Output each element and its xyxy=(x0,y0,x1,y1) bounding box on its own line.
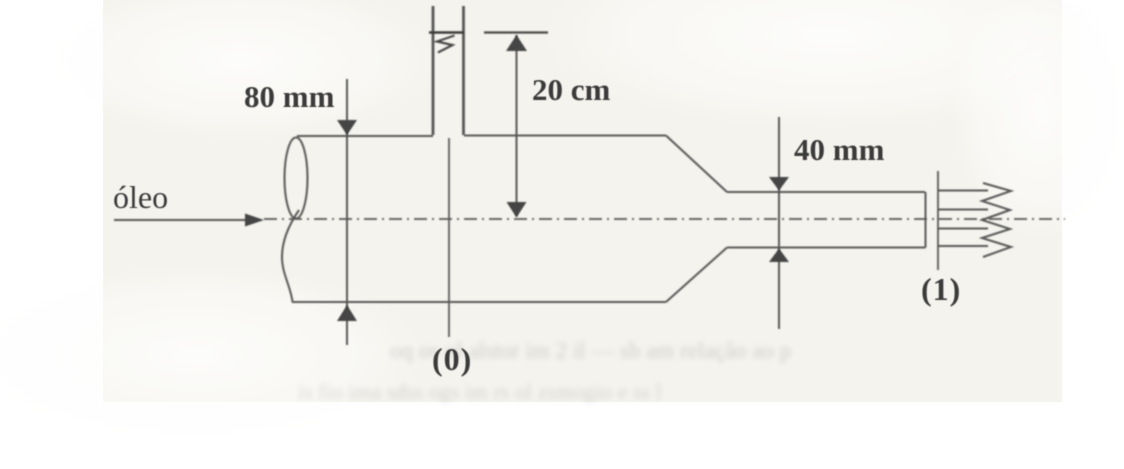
piezometer tube right wall xyxy=(462,6,465,135)
80 mm top arrowhead xyxy=(337,120,357,135)
80 mm dimension line xyxy=(346,79,348,345)
svg-text:40 mm: 40 mm xyxy=(794,132,885,167)
liquid surface squiggle xyxy=(437,36,455,53)
pipe outlet end cap xyxy=(925,192,927,248)
section line (1) xyxy=(937,171,939,270)
contraction bottom slope xyxy=(666,248,727,303)
20 cm up arrowhead xyxy=(506,35,527,51)
20 cm dimension line xyxy=(516,35,518,216)
20 cm datum bar xyxy=(484,31,548,33)
inlet break lower curve xyxy=(282,210,299,302)
narrow pipe bottom edge xyxy=(727,247,926,249)
pipe top edge (wide section, left of tube) xyxy=(297,135,433,137)
oleo inflow arrow shaft xyxy=(114,219,248,221)
piezometer tube left wall xyxy=(432,6,435,135)
40 mm bottom arrowhead xyxy=(769,249,789,263)
liquid level line in tube xyxy=(429,31,464,33)
80 mm bottom arrowhead xyxy=(337,305,357,321)
faint bleed-through text line 2 xyxy=(298,379,662,404)
pipe bottom edge (wide section) xyxy=(292,301,666,303)
outflow arrow 1 xyxy=(938,190,988,192)
scan background xyxy=(103,0,1062,402)
pipe top edge (wide section, right of tube) xyxy=(464,135,666,137)
contraction top slope xyxy=(666,136,727,193)
section line (0) xyxy=(448,138,450,337)
40 mm top arrowhead xyxy=(769,177,789,191)
20 cm down arrowhead xyxy=(507,202,527,218)
inlet break ellipse xyxy=(285,138,308,219)
outflow arrow 3 xyxy=(938,228,988,230)
svg-text:80 mm: 80 mm xyxy=(244,79,335,114)
outflow zigzag arrowheads xyxy=(982,183,1011,257)
svg-text:is fio ima sdss ogs im rs ol z: is fio ima sdss ogs im rs ol zsmogio e s… xyxy=(298,379,662,404)
svg-text:20 cm: 20 cm xyxy=(532,72,611,107)
outflow arrow 4 xyxy=(938,245,988,247)
svg-text:óleo: óleo xyxy=(113,179,168,215)
centerline (dash-dot) xyxy=(264,218,1065,220)
svg-text:(1): (1) xyxy=(921,271,961,307)
oleo arrowhead xyxy=(245,214,264,227)
svg-text:(0): (0) xyxy=(432,341,472,377)
40 mm dimension line xyxy=(778,117,780,329)
narrow pipe top edge xyxy=(727,191,925,193)
faint bleed-through text line 1 xyxy=(390,338,791,363)
outflow arrow 2 xyxy=(938,209,988,211)
